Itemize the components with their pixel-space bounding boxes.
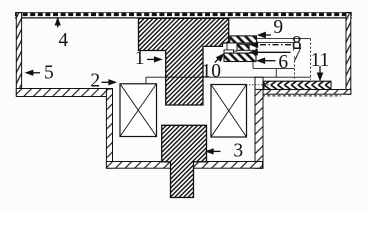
svg-text:4: 4 <box>58 30 68 51</box>
svg-text:5: 5 <box>44 63 54 84</box>
svg-text:11: 11 <box>311 50 330 71</box>
svg-text:3: 3 <box>233 140 243 161</box>
svg-text:1: 1 <box>135 48 145 69</box>
svg-text:9: 9 <box>273 17 283 38</box>
svg-text:8: 8 <box>292 33 302 54</box>
svg-text:2: 2 <box>90 70 100 91</box>
svg-text:10: 10 <box>202 61 222 82</box>
svg-text:6: 6 <box>278 52 288 73</box>
